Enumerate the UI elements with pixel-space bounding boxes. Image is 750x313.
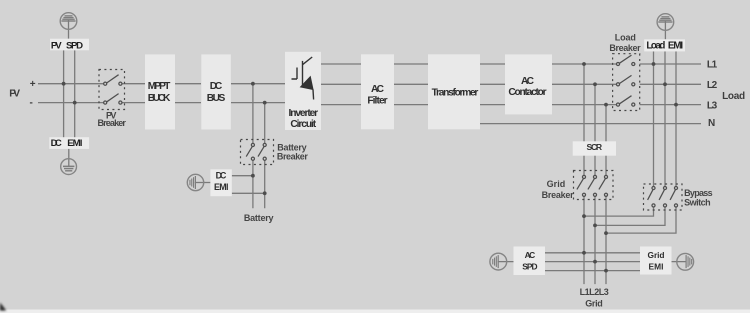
svg-text:EMI: EMI [67,138,83,149]
svg-text:Switch: Switch [684,198,711,208]
svg-text:Transformer: Transformer [432,87,479,98]
svg-text:DC: DC [210,81,223,92]
svg-text:Bypass: Bypass [684,188,713,198]
svg-text:Grid: Grid [547,179,566,189]
svg-text:Filter: Filter [367,95,387,106]
svg-text:L1L2L3: L1L2L3 [580,287,609,297]
svg-text:AC: AC [371,84,385,95]
svg-text:Circuit: Circuit [290,119,316,130]
svg-text:DC: DC [51,138,62,149]
svg-text:+: + [30,79,36,90]
svg-text:EMI: EMI [214,182,229,192]
svg-text:Grid: Grid [648,250,665,260]
svg-text:N: N [708,118,715,129]
svg-text:EMI: EMI [668,40,683,51]
svg-text:DC: DC [216,171,227,181]
svg-text:SCR: SCR [587,142,603,152]
svg-text:Breaker: Breaker [542,190,574,200]
svg-text:PV: PV [9,88,20,99]
svg-text:BUS: BUS [207,93,226,104]
svg-text:PV: PV [51,40,62,51]
svg-text:AC: AC [521,76,535,87]
svg-text:Breaker: Breaker [609,43,641,53]
svg-text:-: - [30,97,33,108]
svg-text:SPD: SPD [66,40,83,51]
svg-text:Inverter: Inverter [288,108,318,119]
svg-text:EMI: EMI [649,262,664,272]
svg-text:L3: L3 [707,100,718,111]
svg-text:Battery: Battery [244,213,274,223]
svg-text:Breaker: Breaker [98,118,127,128]
svg-text:Load: Load [722,91,745,102]
svg-text:Load: Load [615,32,636,42]
svg-text:SPD: SPD [522,262,537,272]
svg-text:MPPT: MPPT [148,81,171,92]
svg-text:L1: L1 [707,59,718,70]
svg-text:L2: L2 [707,80,718,91]
svg-text:Breaker: Breaker [277,152,308,162]
svg-text:AC: AC [525,250,536,260]
svg-text:BUCK: BUCK [148,93,171,104]
svg-text:Load: Load [646,40,665,51]
svg-text:Grid: Grid [585,299,603,309]
svg-text:Contactor: Contactor [508,87,546,98]
